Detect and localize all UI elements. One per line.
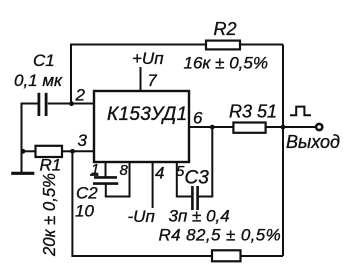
wire R3 to output terminal (266, 126, 316, 128)
wire C2 bottom plate down (105, 184, 107, 197)
wire pin3 node down to bottom rail (71, 151, 73, 256)
svg-text:16к ± 0,5%: 16к ± 0,5% (184, 54, 268, 73)
wire R1 left to ground rail (22, 150, 36, 152)
svg-text:Выход: Выход (286, 132, 340, 152)
resistor R2 (206, 41, 240, 50)
wire R1 right to pin3 node (62, 150, 72, 152)
wire C1 left plate to ground rail (22, 103, 38, 105)
svg-text:10: 10 (75, 202, 94, 221)
wire pin 3 to op-amp (72, 150, 94, 152)
capacitor C2 (93, 177, 118, 183)
svg-text:К153УД1: К153УД1 (107, 104, 187, 125)
wire pin 5 stub (176, 162, 178, 198)
wire right vertical output to feedback (282, 45, 284, 257)
svg-text:1: 1 (91, 161, 99, 178)
wire C1 right plate to pin2 node (48, 103, 71, 105)
wire left ground rail vertical (21, 103, 23, 173)
resistor R4 (212, 250, 241, 261)
svg-text:4: 4 (155, 164, 164, 183)
wire pin 2 to op-amp (71, 103, 95, 105)
svg-text:3п ± 0,4: 3п ± 0,4 (169, 207, 230, 226)
wire pin 1 stub (105, 162, 107, 177)
svg-text:C3: C3 (185, 168, 210, 189)
junction output node (281, 125, 286, 130)
capacitor C3 (192, 186, 197, 210)
wire C3 right plate to pin6 branch (199, 196, 214, 198)
wire top feedback right segment (240, 44, 283, 46)
output terminal circle (316, 124, 322, 130)
capacitor C1 (39, 93, 46, 116)
wire vertical from top feedback to pin2 node (70, 44, 72, 104)
svg-text:R1: R1 (40, 156, 62, 175)
svg-text:C1: C1 (33, 51, 55, 70)
svg-text:+Uп: +Uп (132, 49, 164, 68)
wire pin6 node down to C3 (211, 127, 213, 197)
junction pin6 node (210, 125, 215, 130)
svg-text:7: 7 (148, 72, 158, 90)
svg-text:8: 8 (120, 162, 129, 179)
resistor R1 (36, 146, 63, 157)
resistor R3 (233, 123, 265, 133)
wire bottom rail left of R4 (71, 255, 212, 257)
wire bottom rail right of R4 (241, 255, 284, 257)
op-amp U1 K153UD1 body (94, 91, 189, 162)
wire pin 6 to R3 (189, 126, 234, 128)
svg-text:6: 6 (193, 109, 203, 128)
wire pin 7 stub (140, 67, 142, 91)
ground (11, 172, 34, 175)
wire pin 5 to C3 left plate (177, 196, 192, 198)
svg-text:0,1 мк: 0,1 мк (14, 71, 63, 90)
wire C2 to pin 8 (105, 196, 131, 198)
svg-text:3: 3 (78, 131, 88, 150)
junction pin2 node (69, 101, 74, 106)
svg-text:20к ± 0,5%: 20к ± 0,5% (39, 173, 59, 257)
wire pin 8 stub (129, 162, 131, 198)
svg-text:-Uп: -Uп (128, 207, 156, 226)
junction pin3 node (70, 149, 75, 154)
pin 1 underline (90, 174, 99, 176)
svg-text:R4 82,5 ± 0,5%: R4 82,5 ± 0,5% (159, 226, 282, 245)
svg-text:R2: R2 (214, 19, 237, 39)
svg-text:C2: C2 (76, 184, 98, 203)
wire pin 4 stub (152, 162, 154, 209)
junction R1 left / ground rail (21, 149, 26, 154)
svg-text:2: 2 (75, 86, 86, 105)
svg-text:R3 51: R3 51 (229, 102, 277, 122)
wire top feedback left segment (71, 44, 206, 46)
pulse waveform icon (290, 107, 311, 116)
